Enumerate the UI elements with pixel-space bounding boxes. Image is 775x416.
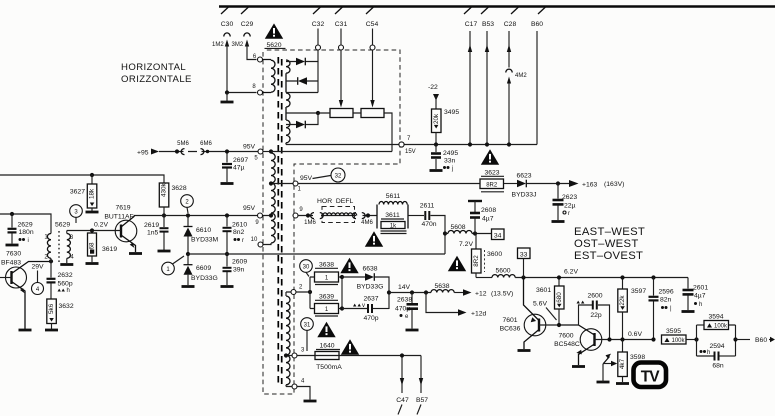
svg-text:3627: 3627 xyxy=(70,189,85,196)
terminal 6 xyxy=(258,57,263,62)
capacitor 2610 8n2 xyxy=(225,213,229,217)
+163 output arrow xyxy=(556,181,560,185)
svg-text:3623: 3623 xyxy=(484,170,499,177)
resistor 3594 100k parallel cap 2594 68n xyxy=(696,325,698,356)
primary winding pins 6-8 xyxy=(263,60,272,93)
warning triangle near 3638 xyxy=(340,258,358,273)
svg-text:h: h xyxy=(699,302,702,308)
wire C32 down xyxy=(317,29,319,46)
svg-text:4µ7: 4µ7 xyxy=(694,293,706,300)
svg-text:5: 5 xyxy=(254,156,258,162)
wire diode row 1 xyxy=(286,50,318,62)
svg-text:4: 4 xyxy=(70,255,74,261)
svg-text:100k: 100k xyxy=(671,338,685,344)
svg-text:470p: 470p xyxy=(363,315,378,322)
capacitor 2608 4u7 xyxy=(468,200,482,202)
lower rail to damper xyxy=(188,253,445,255)
svg-text:4µ7: 4µ7 xyxy=(482,216,494,223)
svg-text:5620: 5620 xyxy=(266,42,281,49)
svg-text:C28: C28 xyxy=(504,21,517,28)
svg-text:TV: TV xyxy=(641,369,660,386)
board box 33 xyxy=(518,248,531,259)
svg-text:0.2V: 0.2V xyxy=(94,222,108,229)
svg-text:2697: 2697 xyxy=(233,157,248,164)
connector tick B53 xyxy=(481,7,489,15)
svg-text:5611: 5611 xyxy=(386,193,401,200)
terminal 9 right (yoke plug) xyxy=(293,213,298,218)
capacitor 2609 39n xyxy=(225,252,229,256)
svg-text:B60: B60 xyxy=(755,337,767,344)
svg-text:C54: C54 xyxy=(366,21,379,28)
svg-text:6M6: 6M6 xyxy=(200,141,212,147)
svg-text:3M2: 3M2 xyxy=(232,42,244,48)
svg-text:31: 31 xyxy=(304,323,311,329)
circled test point 2 xyxy=(181,195,194,208)
svg-text:(163V): (163V) xyxy=(604,181,624,188)
circled test point 1 xyxy=(162,262,175,275)
svg-text:C30: C30 xyxy=(221,21,234,28)
diode 6610 BYD33M xyxy=(186,213,190,217)
wire pin5 to winding xyxy=(263,151,271,153)
terminal 10 xyxy=(258,242,263,247)
arrow up C29 wire xyxy=(245,40,249,47)
svg-text:1: 1 xyxy=(325,307,329,313)
svg-text:5638: 5638 xyxy=(434,283,449,290)
svg-text:-22: -22 xyxy=(428,84,438,91)
svg-text:6638: 6638 xyxy=(362,266,377,273)
junction 2697 xyxy=(225,149,229,153)
svg-text:BC636: BC636 xyxy=(500,326,521,333)
capacitor 2637 470p xyxy=(342,308,367,310)
svg-text:3: 3 xyxy=(301,348,305,354)
6.2V rail with choke 5600 xyxy=(476,277,492,279)
capacitor 2632 560p xyxy=(50,258,52,277)
14V line xyxy=(387,290,391,294)
svg-text:95V: 95V xyxy=(243,144,256,151)
svg-text:7601: 7601 xyxy=(502,317,517,324)
svg-text:6.2V: 6.2V xyxy=(564,269,578,276)
svg-text:3600: 3600 xyxy=(487,251,502,258)
95V line to damper row xyxy=(298,183,480,185)
svg-text:+95: +95 xyxy=(137,150,149,157)
resistor 3627 18k xyxy=(91,175,93,184)
wire diode row 3 xyxy=(286,113,318,125)
15V line from winding to connectors xyxy=(286,144,537,146)
svg-text:h: h xyxy=(707,350,710,356)
warning triangles lower xyxy=(317,322,335,337)
svg-text:+12: +12 xyxy=(475,291,487,298)
dashed enclosure line output transformer xyxy=(263,50,400,394)
junction snubber row xyxy=(316,111,320,115)
snubber resistor box 1 xyxy=(330,109,353,118)
svg-text:22k: 22k xyxy=(619,295,626,306)
svg-text:3632: 3632 xyxy=(59,303,74,310)
winding tap wires xyxy=(263,184,294,216)
svg-text:7600: 7600 xyxy=(558,333,573,340)
top supply bus xyxy=(219,5,775,7)
terminal C31 on dashed box xyxy=(339,45,344,50)
connector tick C30 xyxy=(221,7,229,15)
svg-text:HORIZONTAL: HORIZONTAL xyxy=(121,62,186,73)
svg-text:8R2: 8R2 xyxy=(486,183,498,189)
capacitor 2623 22u xyxy=(557,184,559,199)
svg-text:2: 2 xyxy=(299,285,303,291)
circled 31 xyxy=(301,318,314,331)
svg-text:680: 680 xyxy=(556,292,563,303)
svg-text:5600: 5600 xyxy=(495,268,510,275)
resistor 3600 8R2 xyxy=(475,234,477,250)
resistor 3597 22k xyxy=(622,278,624,290)
damper row junction xyxy=(443,231,447,235)
svg-text:68n: 68n xyxy=(712,363,724,370)
base line xyxy=(67,230,121,232)
svg-text:560p: 560p xyxy=(58,281,73,288)
wire winding mid to snubber row xyxy=(286,112,318,114)
resistor 3598 4k7 xyxy=(622,340,624,353)
circled 30 xyxy=(300,260,313,273)
wire break 5M6/6M6 xyxy=(181,149,204,155)
svg-text:EST–OVEST: EST–OVEST xyxy=(574,250,643,262)
capacitor 2638 470u xyxy=(411,293,413,304)
transformer bottom winding xyxy=(286,296,290,385)
svg-text:j: j xyxy=(451,166,453,172)
svg-text:2608: 2608 xyxy=(481,207,496,214)
svg-text:2619: 2619 xyxy=(144,222,159,229)
svg-text:ORIZZONTALE: ORIZZONTALE xyxy=(121,74,192,85)
svg-text:5M6: 5M6 xyxy=(177,141,189,147)
svg-text:4k7: 4k7 xyxy=(619,358,626,369)
wire C17 xyxy=(469,31,471,145)
svg-text:5629: 5629 xyxy=(55,222,70,229)
board box 34 xyxy=(492,229,505,240)
svg-text:10: 10 xyxy=(251,237,258,243)
svg-text:C31: C31 xyxy=(335,21,348,28)
TV logo xyxy=(634,363,667,388)
svg-text:3594: 3594 xyxy=(708,314,723,321)
svg-text:2638: 2638 xyxy=(397,297,412,304)
terminal C32 on dashed box xyxy=(316,45,321,50)
svg-text:BUT11AF: BUT11AF xyxy=(104,214,133,221)
svg-text:B60: B60 xyxy=(531,21,543,28)
capacitor 2619 1n5 xyxy=(163,216,165,228)
svg-text:7: 7 xyxy=(407,136,411,142)
svg-text:1n5: 1n5 xyxy=(147,230,159,237)
wire C29 down xyxy=(247,42,257,60)
svg-text:39n: 39n xyxy=(233,267,245,274)
svg-text:1: 1 xyxy=(166,267,170,273)
diode 6609 BYD33G xyxy=(186,252,190,256)
svg-text:4: 4 xyxy=(301,379,305,385)
svg-text:C29: C29 xyxy=(241,21,254,28)
svg-text:2637: 2637 xyxy=(363,296,378,303)
+12d branch xyxy=(426,293,458,313)
diode D2 (points left) xyxy=(298,77,307,85)
capacitor 2697 47u xyxy=(226,152,228,163)
capacitor 2611 470n xyxy=(408,215,424,217)
svg-text:15V: 15V xyxy=(405,149,416,155)
connector tick C32 xyxy=(313,7,321,15)
svg-text:3638: 3638 xyxy=(319,262,334,269)
svg-text:0.6V: 0.6V xyxy=(628,331,642,338)
svg-text:3595: 3595 xyxy=(666,328,681,335)
terminal 2 xyxy=(291,290,296,295)
svg-text:2495: 2495 xyxy=(443,150,458,157)
svg-text:BYD33M: BYD33M xyxy=(191,237,219,244)
terminal 9 left xyxy=(258,213,263,218)
wire B53 xyxy=(486,31,488,145)
svg-text:e: e xyxy=(405,314,409,320)
arrow up C30 wire xyxy=(225,40,229,47)
svg-text:22µ: 22µ xyxy=(564,203,576,210)
svg-text:3601: 3601 xyxy=(536,287,551,294)
svg-text:22p: 22p xyxy=(590,312,602,319)
ground C30 xyxy=(221,101,234,103)
connector tick C31 xyxy=(335,7,343,15)
wire C54 down with arrow xyxy=(372,29,374,104)
svg-text:v: v xyxy=(362,303,365,309)
svg-text:i: i xyxy=(28,238,29,244)
svg-text:1: 1 xyxy=(325,276,329,282)
svg-text:EAST–WEST: EAST–WEST xyxy=(574,226,645,238)
connector tick C54 xyxy=(366,7,374,15)
svg-text:470µ: 470µ xyxy=(395,306,410,313)
circled 32 xyxy=(331,168,345,182)
svg-text:2632: 2632 xyxy=(58,272,73,279)
resistor 3628 430k xyxy=(159,183,169,207)
svg-text:3597: 3597 xyxy=(631,288,646,295)
svg-text:T500mA: T500mA xyxy=(316,364,342,371)
svg-text:8R2: 8R2 xyxy=(473,255,480,267)
svg-text:5608: 5608 xyxy=(450,224,465,231)
wire C30 to pin 8 xyxy=(227,92,257,94)
svg-text:2600: 2600 xyxy=(587,293,602,300)
svg-text:2594: 2594 xyxy=(709,343,724,350)
svg-text:1k: 1k xyxy=(390,223,397,229)
svg-text:OST–WEST: OST–WEST xyxy=(574,238,639,250)
svg-text:2610: 2610 xyxy=(232,222,247,229)
warning triangle near 3600 xyxy=(448,256,466,271)
svg-text:BC548C: BC548C xyxy=(554,341,580,348)
svg-text:2623: 2623 xyxy=(562,194,577,201)
svg-text:82n: 82n xyxy=(660,297,672,304)
transformer core dashed lines xyxy=(277,57,279,386)
circled test point 3 xyxy=(70,205,83,218)
svg-text:2601: 2601 xyxy=(693,285,708,292)
primary winding main xyxy=(271,153,275,243)
svg-text:33: 33 xyxy=(520,251,528,258)
svg-text:4M2: 4M2 xyxy=(515,73,527,79)
svg-text:3611: 3611 xyxy=(385,212,400,219)
capacitor 2601 4u7 xyxy=(687,278,689,289)
resistor 3632 5k6 xyxy=(47,299,57,324)
svg-text:BF483: BF483 xyxy=(1,260,21,267)
svg-text:9: 9 xyxy=(255,220,259,226)
svg-text:HOR DEFL: HOR DEFL xyxy=(317,198,353,205)
svg-text:3639: 3639 xyxy=(319,294,334,301)
svg-text:3628: 3628 xyxy=(172,185,187,192)
terminal 8 xyxy=(258,90,263,95)
spark gap symbol xyxy=(597,381,610,383)
connector tick C29 xyxy=(241,7,249,15)
svg-text:8: 8 xyxy=(252,84,256,90)
svg-text:14V: 14V xyxy=(398,284,411,291)
svg-text:32: 32 xyxy=(335,174,342,180)
junction C30/gnd xyxy=(225,90,229,94)
svg-text:95V: 95V xyxy=(243,205,256,212)
svg-text:5.6V: 5.6V xyxy=(533,301,547,308)
capacitor 2596 82n xyxy=(651,275,655,279)
svg-text:C32: C32 xyxy=(312,21,325,28)
svg-text:4: 4 xyxy=(36,287,40,293)
terminal 5 xyxy=(258,149,263,154)
svg-text:1M6: 1M6 xyxy=(304,220,316,226)
svg-text:6609: 6609 xyxy=(196,265,211,272)
svg-text:BYD33J: BYD33J xyxy=(512,192,537,199)
svg-text:18k: 18k xyxy=(89,188,96,199)
terminal C54 on dashed box xyxy=(370,45,375,50)
B60 output xyxy=(736,339,751,341)
connector arc C29 xyxy=(244,33,250,37)
capacitor 2600 22p feedback xyxy=(579,305,593,325)
connector lines C47 B57 xyxy=(401,356,403,394)
diode 6638 BYD33G xyxy=(342,276,365,278)
connector tick C17 xyxy=(464,7,472,15)
svg-text:3598: 3598 xyxy=(630,354,645,361)
svg-text:+163: +163 xyxy=(582,182,598,189)
svg-text:(13.5V): (13.5V) xyxy=(491,291,513,298)
wire B60 xyxy=(536,31,538,145)
svg-text:47µ: 47µ xyxy=(233,165,245,172)
choke 5608 xyxy=(445,233,448,235)
svg-text:100k: 100k xyxy=(714,324,728,330)
svg-text:180n: 180n xyxy=(19,229,34,236)
svg-text:B57: B57 xyxy=(416,397,428,404)
svg-text:1M2: 1M2 xyxy=(212,42,224,48)
choke 5638 xyxy=(431,290,454,293)
terminal on dashed box 95V line xyxy=(293,181,298,186)
svg-text:2609: 2609 xyxy=(232,259,247,266)
wire diode row 2 xyxy=(286,62,318,93)
svg-text:C17: C17 xyxy=(465,21,478,28)
svg-text:1: 1 xyxy=(298,187,302,193)
terminal 3 xyxy=(284,353,288,357)
svg-text:h: h xyxy=(67,288,70,294)
svg-text:430k: 430k xyxy=(161,182,168,197)
terminal 4 xyxy=(292,384,297,389)
svg-text:470n: 470n xyxy=(421,221,436,228)
svg-text:34: 34 xyxy=(494,232,502,239)
svg-text:2611: 2611 xyxy=(420,203,435,210)
junction 3495 xyxy=(434,142,438,146)
svg-text:1640: 1640 xyxy=(319,343,334,350)
diode D3 xyxy=(296,121,305,129)
connector arc C30 xyxy=(224,33,230,37)
svg-text:6610: 6610 xyxy=(196,227,211,234)
connector tick B60 xyxy=(538,7,546,15)
svg-text:+12d: +12d xyxy=(471,311,487,318)
svg-text:B53: B53 xyxy=(482,21,494,28)
deflection line with breaks xyxy=(298,215,377,217)
svg-text:20k: 20k xyxy=(433,113,440,124)
svg-text:r: r xyxy=(242,238,244,244)
connector tick C28 xyxy=(511,7,519,15)
snubber resistor box 2 xyxy=(361,109,384,118)
diode D1 xyxy=(296,58,305,66)
terminal 7 xyxy=(399,142,404,147)
warning triangle above 3623 xyxy=(481,149,499,164)
svg-text:7619: 7619 xyxy=(115,205,130,212)
svg-text:7.2V: 7.2V xyxy=(459,241,473,248)
wire C31 down with arrow xyxy=(340,29,342,104)
svg-text:|: | xyxy=(670,306,672,312)
secondary winding top (rectifier) xyxy=(286,60,290,145)
svg-text:33n: 33n xyxy=(444,158,456,165)
wire to ground xyxy=(226,93,228,102)
svg-text:2596: 2596 xyxy=(659,289,674,296)
capacitor 2495 33n xyxy=(435,145,437,153)
svg-text:7630: 7630 xyxy=(6,251,21,258)
svg-text:5k6: 5k6 xyxy=(48,303,55,314)
svg-text:9: 9 xyxy=(299,207,303,213)
svg-text:95V: 95V xyxy=(300,175,313,182)
collector rail 95V left xyxy=(134,215,258,217)
wire 95V line to snubber corner xyxy=(271,151,392,153)
svg-text:8n2: 8n2 xyxy=(233,229,245,236)
capacitor 2629 180n xyxy=(11,214,13,228)
svg-text:68: 68 xyxy=(89,242,96,250)
svg-text:BYD33G: BYD33G xyxy=(357,284,384,291)
left feed line top xyxy=(0,175,164,183)
svg-text:BYD33G: BYD33G xyxy=(191,275,218,282)
wires snubber row xyxy=(318,113,392,152)
svg-text:3: 3 xyxy=(70,235,74,241)
warning triangle 5620 xyxy=(265,23,283,38)
svg-text:6623: 6623 xyxy=(516,173,531,180)
svg-text:C47: C47 xyxy=(396,397,409,404)
svg-text:3: 3 xyxy=(74,210,78,216)
wire C30 down xyxy=(226,42,228,93)
svg-text:3619: 3619 xyxy=(102,246,117,253)
svg-text:2: 2 xyxy=(185,200,189,206)
svg-text:30: 30 xyxy=(303,265,310,271)
svg-text:4M6: 4M6 xyxy=(361,220,373,226)
wire C28 with 4M2 break xyxy=(508,31,510,145)
svg-text:2629: 2629 xyxy=(18,222,33,229)
warning triangle below 3611 xyxy=(365,231,383,246)
svg-text:r: r xyxy=(568,211,570,217)
svg-text:29V: 29V xyxy=(32,264,45,271)
resistor 3619 68 xyxy=(90,228,94,232)
diode 6623 BYD33J xyxy=(504,183,518,185)
svg-text:3495: 3495 xyxy=(444,109,459,116)
